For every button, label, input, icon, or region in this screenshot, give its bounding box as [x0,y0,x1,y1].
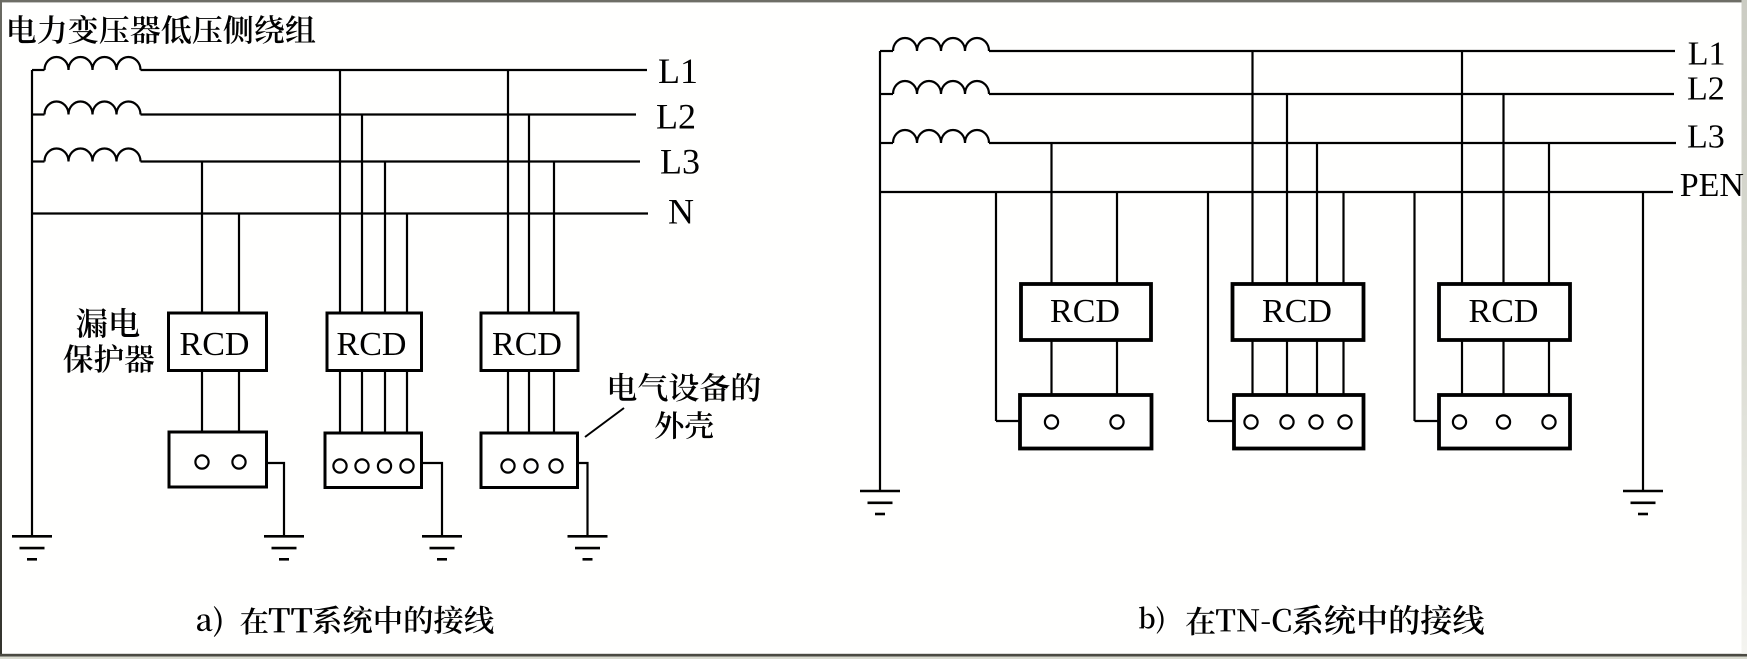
wire transformer star to earth right [879,51,881,491]
RCD U2 box [327,313,422,371]
transformer winding W5 [893,81,989,94]
wire bus L2 right [989,93,1674,95]
terminal M3 pin2 [524,459,537,472]
wire PEN to M5 enclosure horiz [1208,420,1234,422]
pointer line to enclosure [585,408,624,437]
wire L3 to RCD5 [1316,143,1318,284]
wire N to RCD2 [406,214,408,314]
wire bus PEN [880,191,1673,193]
svg-text:RCD: RCD [1262,293,1332,330]
RCD U3 box [481,313,578,371]
wire RCD5 out d [1342,340,1344,395]
wire RCD4 out a [1050,340,1052,395]
svg-text:L1: L1 [1688,36,1726,73]
ground E1 [264,536,304,559]
terminal M2 pin1 [333,459,346,472]
wire bus L3 right segment left [880,142,893,144]
svg-text:RCD: RCD [337,326,407,363]
label 外壳 [655,411,713,439]
wire L1 to RCD2 [339,70,341,313]
wire L3 to RCD3 [553,162,555,314]
ground transformer neutral right [860,491,900,514]
RCD U6 box [1439,284,1570,340]
ground transformer neutral [12,536,52,559]
RCD U4 box [1021,284,1151,340]
svg-text:N: N [668,192,694,232]
load enclosure M1 box [169,432,267,487]
transformer winding W2 [45,102,141,115]
terminal M3 pin1 [501,459,514,472]
wire bus L1 [141,69,648,71]
caption b) latin [1139,606,1164,634]
transformer winding W4 [893,38,989,51]
RCD U5 box [1233,284,1364,340]
terminal M4 pin2 [1110,415,1123,428]
wire bus L2 right segment left [880,93,893,95]
wire PEN to RCD4 [1116,192,1118,284]
load enclosure M2 box [325,433,422,488]
ground E3 [568,536,608,559]
ground E2 [422,536,462,559]
label 漏电 [77,308,140,338]
label 电气设备的 [610,373,760,402]
wire RCD2 out c [384,371,386,434]
terminal M1 pin1 [195,455,208,468]
wire L2 to RCD3 [528,115,530,314]
wire RCD1 out b [238,371,240,433]
wire PEN to M4 enclosure horiz [996,420,1020,422]
terminal M2 pin4 [400,459,413,472]
wire RCD3 out b [528,371,530,434]
wire L3 to RCD2 [384,162,386,314]
svg-text:RCD: RCD [492,326,562,363]
wire L2 to RCD6 [1502,94,1504,284]
wire L3 to RCD6 [1548,143,1550,284]
transformer winding W6 [893,130,989,143]
wire bus L1 segment left [32,69,45,71]
wire RCD6 out c [1548,340,1550,395]
caption TN-C latin [1216,609,1291,632]
wire bus L1 right [989,50,1675,52]
wire RCD5 out b [1286,340,1288,395]
svg-text:L3: L3 [660,142,700,182]
caption 系统中的接线 (a) [313,605,493,633]
load enclosure M3 box [481,433,578,488]
load enclosure M6 box [1439,395,1570,449]
terminal M5 pin4 [1338,415,1351,428]
wire PEN to M4 enclosure drop [995,192,997,421]
wire bus L3 [141,160,641,162]
transformer winding W1 [45,57,141,70]
wire RCD2 out b [361,371,363,434]
terminal M5 pin1 [1244,415,1257,428]
wire L2 to RCD5 [1286,94,1288,284]
svg-text:PEN: PEN [1680,167,1744,204]
wire transformer star point to earth [31,70,33,536]
wire L2 to RCD2 [361,115,363,314]
caption a) latin [197,606,222,637]
load enclosure M5 box [1234,395,1364,449]
wire RCD6 out a [1461,340,1463,395]
wire M1 enclosure to earth [267,463,285,536]
caption 在 (a) [240,607,267,634]
ground PEN right [1623,491,1663,514]
wire L1 to RCD3 [507,70,509,313]
caption TT latin [269,608,312,632]
label 保护器 [64,344,155,373]
svg-text:RCD: RCD [1469,293,1539,330]
terminal M2 pin3 [378,459,391,472]
wire L1 to RCD5 [1251,51,1253,284]
wire RCD2 out d [406,371,408,434]
wire PEN to earth right [1642,192,1644,491]
terminal M5 pin2 [1280,415,1293,428]
wire RCD1 out a [201,371,203,433]
wire RCD4 out b [1116,340,1118,395]
wire RCD6 out b [1502,340,1504,395]
svg-text:RCD: RCD [180,326,250,363]
terminal M3 pin3 [549,459,562,472]
svg-text:L2: L2 [656,97,696,137]
transformer winding W3 [45,149,141,162]
svg-text:L2: L2 [1687,71,1725,108]
terminal M1 pin2 [232,455,245,468]
wire L3 to RCD1 [201,162,203,314]
terminal M4 pin1 [1045,415,1058,428]
wire L3 to RCD4 [1050,143,1052,284]
RCD U1 box [169,313,267,371]
wire bus L2 [141,113,637,115]
wire RCD2 out a [339,371,341,434]
terminal M5 pin3 [1309,415,1322,428]
terminal M6 pin3 [1542,415,1555,428]
wire PEN to M6 enclosure horiz [1415,420,1440,422]
svg-text:L3: L3 [1687,118,1725,155]
caption 系统中的接线 (b) [1293,605,1484,635]
terminal M2 pin2 [355,459,368,472]
svg-text:RCD: RCD [1050,293,1120,330]
terminal M6 pin2 [1497,415,1510,428]
wire RCD5 out c [1316,340,1318,395]
wire RCD3 out c [553,371,555,434]
wire N to RCD1 [238,214,240,314]
wire PEN to M6 enclosure drop [1413,192,1415,421]
wire L1 to RCD6 [1461,51,1463,284]
wire PEN to RCD5 [1342,192,1344,284]
wire M3 enclosure to earth [578,463,588,536]
wire RCD3 out a [507,371,509,434]
terminal M6 pin1 [1453,415,1466,428]
wire M2 enclosure to earth [422,463,443,536]
title label 电力变压器低压侧绕组 [9,15,315,44]
wire bus L3 right [989,142,1676,144]
wire PEN to M5 enclosure drop [1207,192,1209,421]
wire bus L1 right segment left [880,50,893,52]
wire bus L2 segment left [32,113,45,115]
svg-text:L1: L1 [658,51,698,91]
wire RCD5 out a [1251,340,1253,395]
caption 在 (b) [1186,607,1215,636]
wire bus N [32,212,648,214]
load enclosure M4 box [1020,395,1152,449]
wire bus L3 segment left [32,160,45,162]
